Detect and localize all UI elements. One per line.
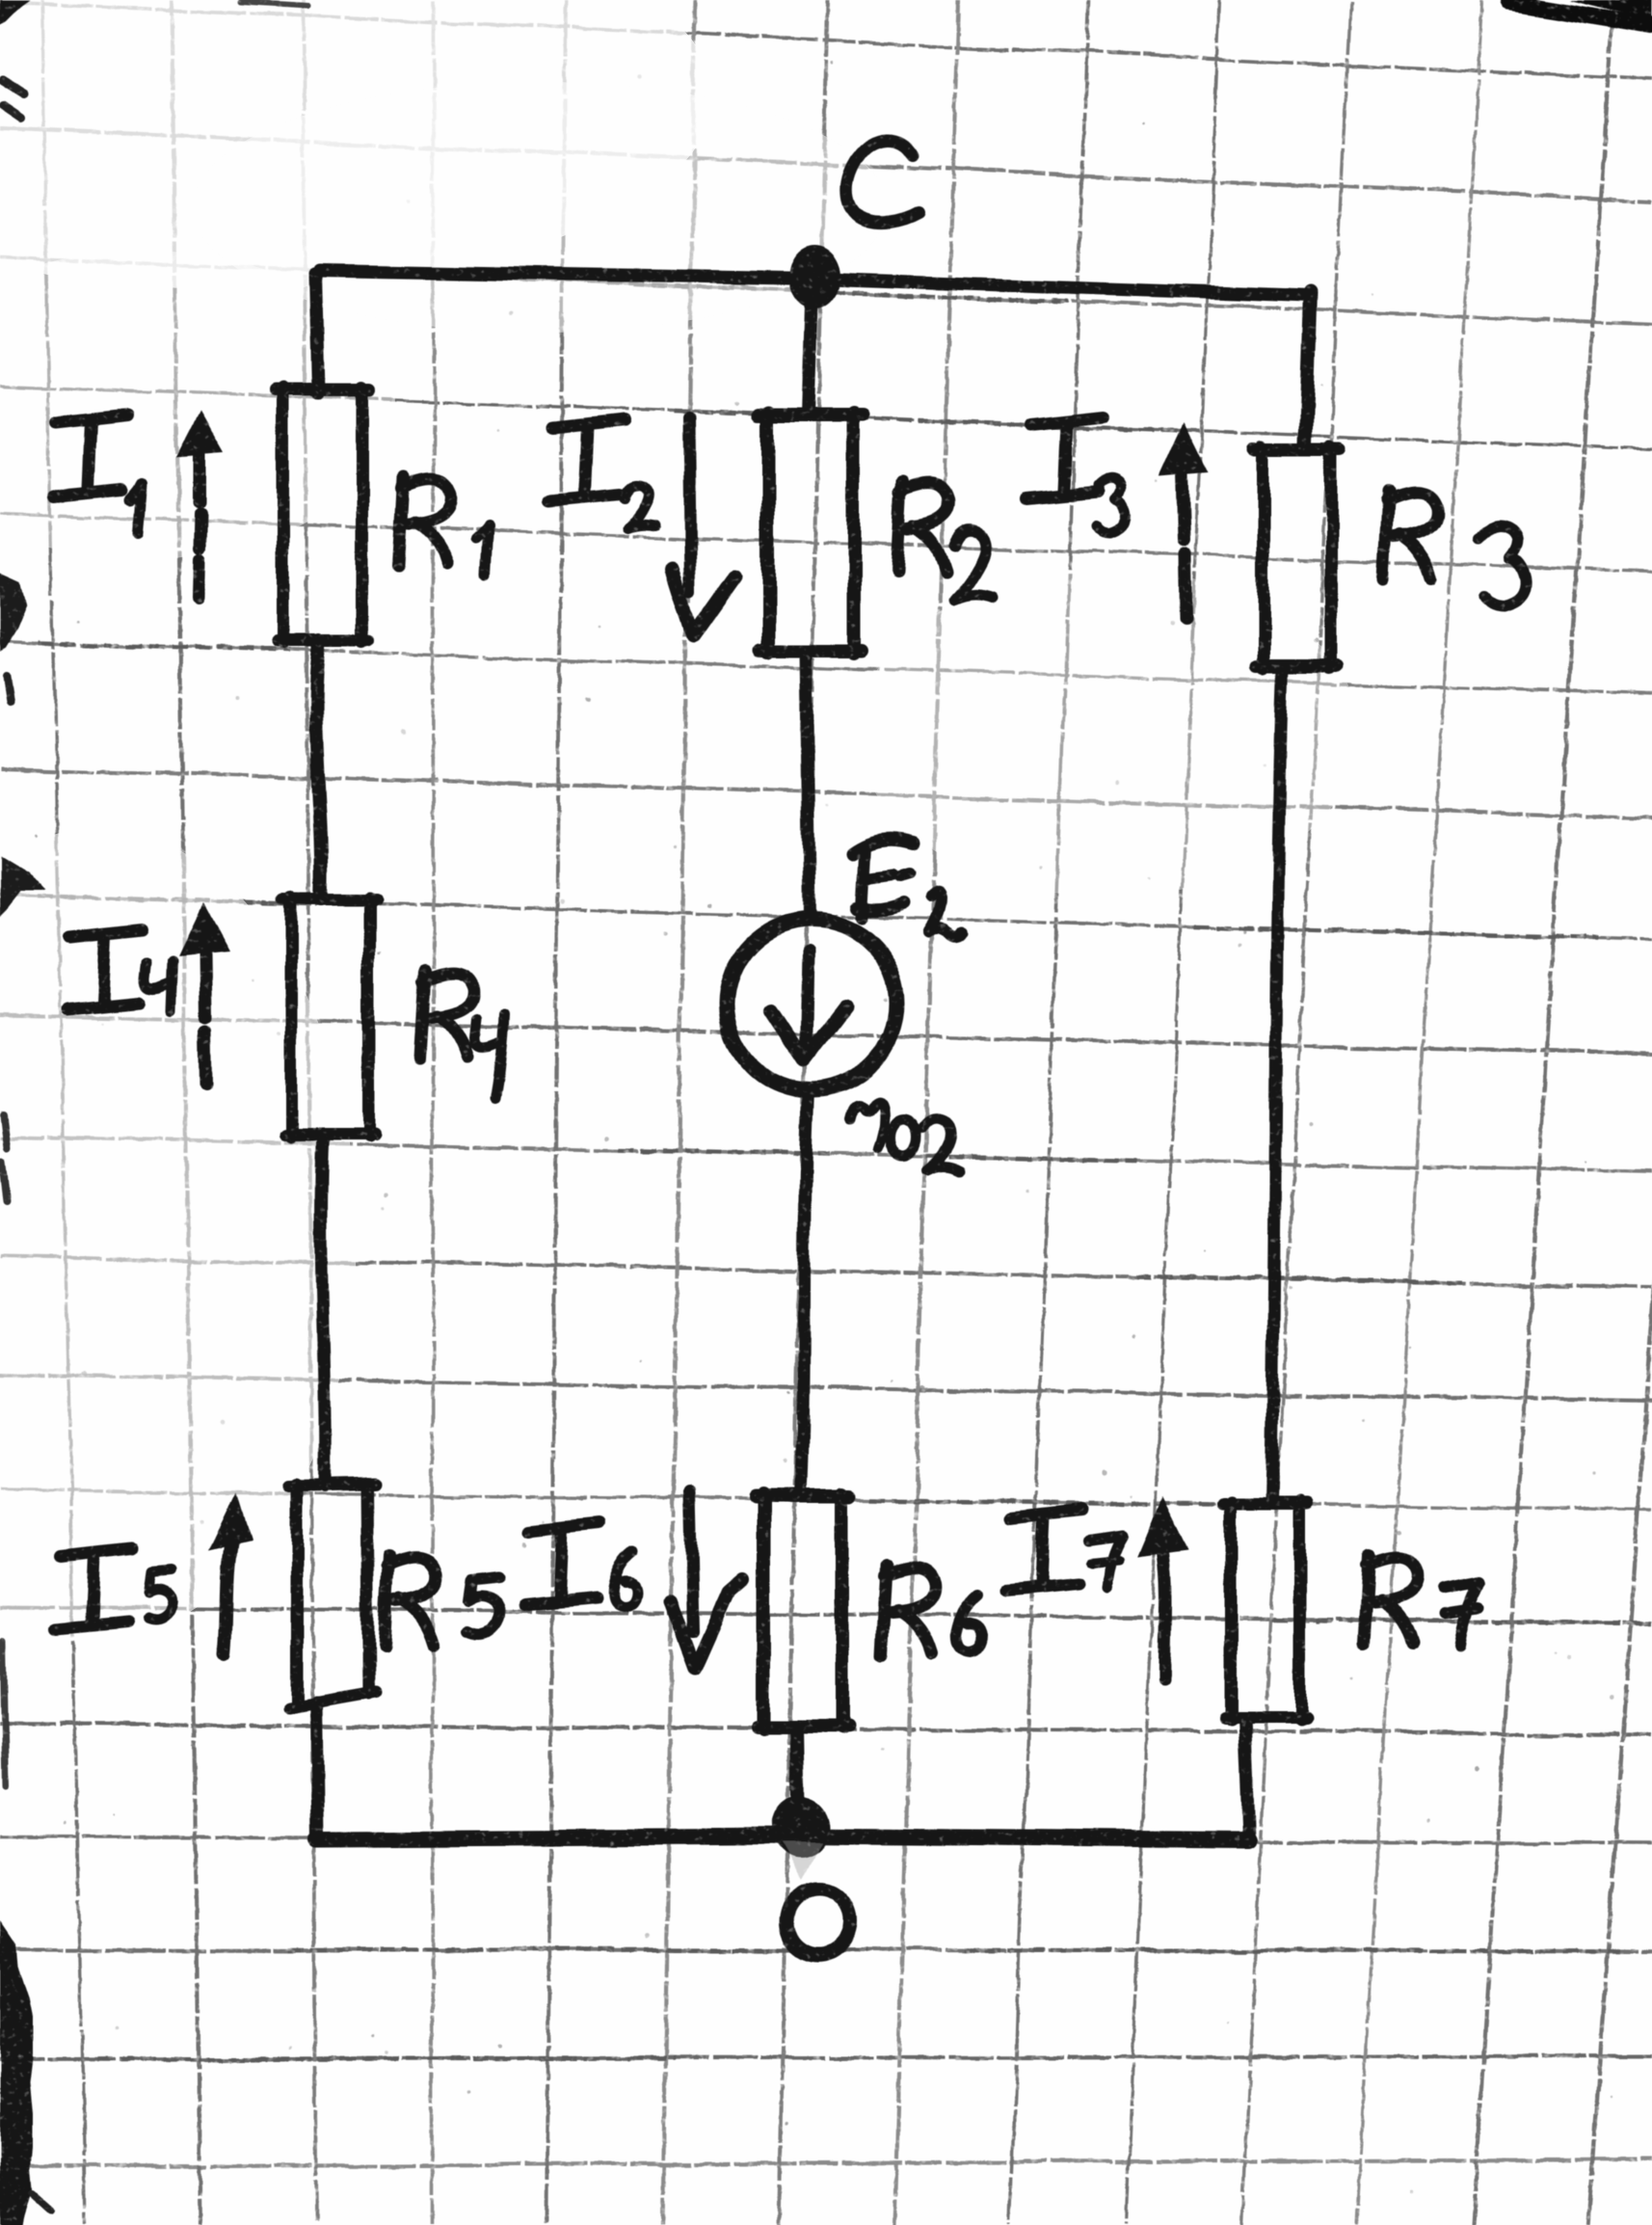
label R1 xyxy=(398,477,403,567)
current arrow I3 (up) xyxy=(1159,420,1209,475)
resistor R1 xyxy=(276,383,370,395)
label node C xyxy=(847,141,919,224)
source E2 (circle with arrow), internal resistance r02 xyxy=(726,919,897,1090)
resistor R2 xyxy=(759,408,864,421)
current arrow I6 (down) xyxy=(690,1490,693,1631)
label node O xyxy=(787,1889,851,1954)
wire R1 top stub xyxy=(315,273,318,391)
current arrow I2 (down) xyxy=(688,418,690,590)
label R5 xyxy=(385,1555,389,1645)
label E2 xyxy=(852,840,914,853)
wire E2 to R6 xyxy=(801,1092,808,1496)
wire R2 to source E2 xyxy=(806,651,810,917)
resistor R5 xyxy=(289,1485,375,1487)
wire R6 to node O xyxy=(797,1727,799,1836)
label R6 xyxy=(882,1566,887,1655)
label I7 xyxy=(1010,1510,1081,1517)
wire R3 to R7 xyxy=(1271,666,1283,1503)
wire top bus xyxy=(319,270,1311,295)
label r02 xyxy=(849,1103,884,1148)
wire R7 to bottom bus xyxy=(1244,1717,1249,1839)
label R2 xyxy=(896,482,901,572)
label I2 xyxy=(553,420,625,428)
wire bottom bus xyxy=(318,1836,1249,1840)
wire R3 top stub xyxy=(1306,291,1311,443)
resistor R3 xyxy=(1255,442,1340,455)
resistor R6 xyxy=(756,1489,850,1503)
current arrow I4 (up) xyxy=(178,902,229,955)
node C xyxy=(788,245,840,308)
label I1 xyxy=(56,416,127,423)
wire R4 to R5 xyxy=(321,1135,325,1487)
wire R5 to node O bus xyxy=(316,1702,318,1838)
label I4 xyxy=(71,928,143,936)
current arrow I7 (up) xyxy=(1137,1497,1188,1557)
label I3 xyxy=(1031,417,1103,425)
current arrow I5 (up) xyxy=(208,1492,251,1550)
wire R1 to R4 xyxy=(316,639,322,898)
label R7 xyxy=(1364,1555,1369,1645)
resistor R7 xyxy=(1223,1497,1308,1510)
label R3 xyxy=(1383,491,1388,580)
node O xyxy=(771,1797,829,1859)
hand-drawn circuit xyxy=(52,141,1526,1954)
wire node C to R2 xyxy=(808,289,812,415)
label I6 xyxy=(528,1524,600,1532)
label R4 xyxy=(419,970,424,1059)
label I5 xyxy=(60,1548,131,1556)
resistor R4 xyxy=(283,893,377,905)
current arrow I1 (up) xyxy=(175,411,224,457)
